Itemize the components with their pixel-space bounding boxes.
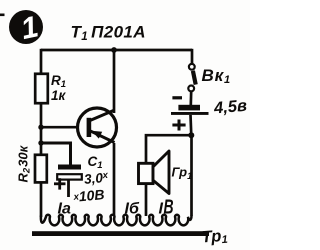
battery GB1	[171, 98, 209, 131]
svg-text:В: В	[164, 195, 174, 218]
svg-text:R230к: R230к	[16, 144, 33, 182]
node C1 branch junction	[38, 140, 43, 145]
svg-text:1к: 1к	[51, 88, 67, 103]
wire speaker bottom	[145, 184, 148, 217]
svg-text:Тр1: Тр1	[201, 227, 228, 248]
resistor R1	[35, 74, 48, 103]
wire speaker top	[146, 135, 191, 164]
svg-text:Гр1: Гр1	[172, 165, 193, 182]
svg-text:Iа: Iа	[58, 201, 71, 218]
wire switch to battery	[189, 91, 192, 105]
wire left drop to R1	[40, 49, 43, 75]
speaker Gr1	[139, 151, 170, 194]
svg-text:3,0х: 3,0х	[83, 170, 109, 187]
svg-text:С1: С1	[88, 154, 103, 171]
transistor Q1	[78, 108, 117, 147]
svg-text:Т1П201А: Т1П201А	[71, 23, 146, 44]
transformer winding Tr1	[41, 215, 192, 226]
svg-text:х10В: х10В	[72, 186, 105, 205]
wire right drop to winding	[190, 135, 193, 216]
node base junction	[38, 125, 43, 130]
resistor R2	[35, 155, 47, 183]
wire collector drop	[113, 50, 116, 113]
wire R1 to base node	[40, 103, 43, 156]
transformer core bar	[32, 231, 209, 236]
wire top rail	[41, 49, 192, 52]
svg-text:Iб: Iб	[125, 201, 140, 218]
node battery-speaker junction	[188, 132, 194, 138]
capacitor C1	[54, 165, 82, 198]
wire C1 branch	[41, 143, 71, 165]
wire R2 to winding	[40, 182, 43, 217]
wire battery to node	[189, 115, 193, 136]
switch Vk1	[188, 64, 195, 91]
wire rail right corner	[191, 49, 194, 64]
figure number badge	[0, 10, 43, 46]
wire base	[40, 126, 88, 129]
svg-text:4,5в: 4,5в	[212, 97, 247, 118]
node junction top	[111, 47, 117, 53]
svg-text:Вк1: Вк1	[202, 66, 231, 86]
wire emitter drop	[113, 143, 116, 216]
